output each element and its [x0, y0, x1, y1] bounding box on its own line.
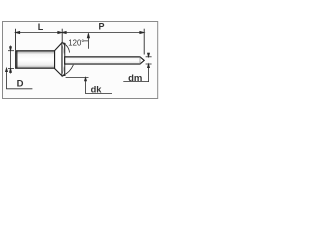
mandrel stem — [65, 57, 145, 64]
bottom extension line — [66, 77, 89, 79]
120 leader to right — [84, 33, 90, 48]
ticks — [146, 56, 152, 58]
leader with up arrow — [86, 78, 113, 94]
120° angle dimension arc (bottom) — [63, 65, 73, 75]
svg-text:D: D — [17, 79, 24, 90]
dm dimension (mandrel diameter) — [123, 53, 151, 82]
extension line mandrel tip — [143, 29, 145, 55]
arc arrowhead bottom — [62, 74, 66, 76]
ticks — [8, 50, 14, 52]
dk dimension (head diameter) — [66, 78, 112, 94]
head cone edge lines — [62, 43, 65, 75]
D label leader — [6, 68, 33, 89]
body end face (mandrel head) line — [16, 51, 18, 68]
arc arrowhead top — [62, 43, 66, 45]
extension line head face — [61, 29, 63, 43]
mandrel chamfer edge — [139, 57, 141, 64]
D dimension (body diameter) — [8, 46, 14, 74]
dimension line L and P (shared) — [16, 31, 145, 33]
rivet countersunk head — [55, 43, 65, 76]
arrow P right — [140, 31, 144, 33]
arrow L left — [16, 31, 20, 33]
drawing frame — [3, 22, 158, 99]
arrow L right — [58, 31, 62, 33]
label underline — [123, 81, 149, 83]
extension line body left — [15, 29, 17, 51]
background — [0, 0, 160, 120]
arrows — [148, 53, 150, 57]
svg-text:dm: dm — [128, 73, 142, 84]
svg-text:dk: dk — [91, 84, 103, 94]
rivet body — [16, 51, 55, 68]
120° angle dimension arc (top) — [64, 44, 70, 53]
arrow P left — [62, 31, 66, 33]
arrows outside — [10, 47, 12, 51]
svg-text:L: L — [38, 22, 44, 32]
svg-text:P: P — [99, 21, 105, 31]
vertical line above and below stem — [148, 53, 150, 57]
svg-text:120°: 120° — [68, 38, 84, 47]
